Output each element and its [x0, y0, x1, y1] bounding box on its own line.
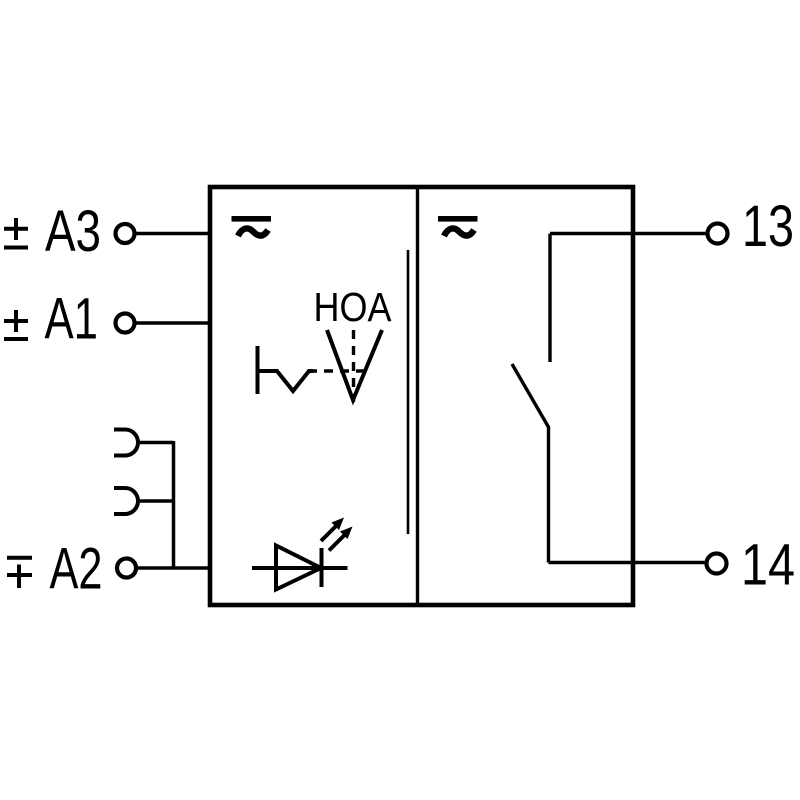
label A1 — [45, 287, 99, 352]
svg-text:A2: A2 — [50, 537, 103, 602]
wiper zigzag with end bar — [258, 346, 314, 394]
wire to terminal 14 — [549, 561, 705, 565]
svg-text:14: 14 — [741, 533, 795, 598]
svg-text:A3: A3 — [45, 199, 101, 264]
trimmer pointer V — [327, 330, 382, 400]
wire A3 to box — [136, 232, 210, 236]
terminal circle A1 — [116, 314, 135, 333]
switch bottom lead — [547, 427, 550, 563]
connector bracket 1 — [114, 430, 138, 456]
terminal circle 14 — [707, 554, 727, 574]
svg-text:13: 13 — [742, 194, 794, 259]
vertical bus wire joining brackets to A2 wire — [172, 441, 176, 568]
wire to terminal 13 — [550, 232, 706, 236]
svg-text:A1: A1 — [45, 287, 99, 352]
LED D1 anode wire — [252, 566, 348, 570]
label HOA — [314, 284, 392, 330]
terminal circle A3 — [116, 224, 135, 243]
divider wall between input and output sections — [416, 187, 419, 605]
AC symbol (output section) — [438, 216, 478, 236]
terminal circle A2 — [117, 559, 136, 578]
trimmer dashed horizontal link — [308, 369, 365, 372]
AC symbol (input section) — [232, 216, 272, 236]
LED D1 triangle — [276, 546, 321, 590]
connector bracket 2 — [114, 488, 138, 514]
isolation barrier line — [407, 250, 410, 534]
wire A1 to box — [136, 321, 210, 325]
label 14 — [741, 533, 795, 598]
label A2 — [50, 537, 103, 602]
wire A2 to box — [138, 566, 210, 570]
minus-plus symbol for A2 — [7, 558, 32, 588]
label 13 — [742, 194, 794, 259]
label A3 — [45, 199, 101, 264]
wire from bracket 1 — [138, 441, 174, 445]
svg-text:HOA: HOA — [314, 284, 392, 330]
switch blade — [512, 364, 549, 428]
LED D1 cathode bar — [320, 548, 324, 587]
plus-minus symbol for A1 — [4, 310, 28, 339]
LED D1 emission arrows — [321, 518, 353, 551]
trimmer dashed centerline — [352, 330, 355, 402]
wire from bracket 2 — [138, 499, 174, 503]
plus-minus symbol for A3 — [4, 218, 28, 248]
switch contact top lead — [548, 234, 551, 363]
terminal circle 13 — [708, 224, 728, 244]
component outline box U1 — [210, 187, 633, 605]
